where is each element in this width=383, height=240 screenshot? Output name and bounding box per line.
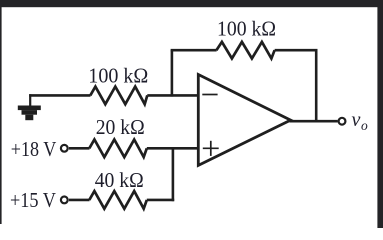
wire ground to R1 [29, 94, 90, 97]
svg-text:100 kΩ: 100 kΩ [217, 17, 276, 41]
op-amp U1 [198, 75, 290, 166]
svg-text:40 kΩ: 40 kΩ [95, 168, 144, 192]
svg-text:v: v [352, 109, 361, 131]
terminal +18 V [61, 145, 68, 152]
resistor 100 kOhm (feedback) [216, 42, 274, 59]
op-amp inverting input symbol (minus) [202, 94, 217, 96]
terminal v_o [339, 118, 346, 125]
wire +18V terminal to R2 [69, 147, 90, 150]
wire tap down from noninverting node to R3 row [172, 148, 175, 201]
wire feedback down to output node [315, 49, 318, 121]
op-amp noninverting input symbol (plus) [203, 141, 219, 156]
wire top feedback right [275, 49, 318, 52]
svg-text:+15 V: +15 V [10, 188, 56, 212]
wire op-amp output [290, 120, 338, 123]
wire feedback tap up from inverting node [171, 50, 174, 96]
label v_o [352, 109, 369, 133]
svg-text:+18 V: +18 V [11, 137, 57, 161]
wire R3 to tap [147, 199, 174, 202]
resistor 20 kOhm [89, 140, 147, 158]
resistor 100 kOhm (inverting input) [90, 87, 147, 105]
svg-text:20 kΩ: 20 kΩ [96, 115, 145, 139]
resistor 40 kOhm [89, 191, 147, 209]
terminal +15 V [61, 197, 68, 204]
wire top feedback left [171, 49, 217, 52]
svg-text:o: o [361, 118, 368, 133]
wire R1 to op-amp inverting input [147, 94, 198, 97]
wire +15V terminal to R3 [69, 199, 90, 202]
ground [18, 94, 41, 120]
svg-text:100 kΩ: 100 kΩ [88, 63, 148, 87]
wire R2 to op-amp noninverting input [147, 147, 198, 150]
